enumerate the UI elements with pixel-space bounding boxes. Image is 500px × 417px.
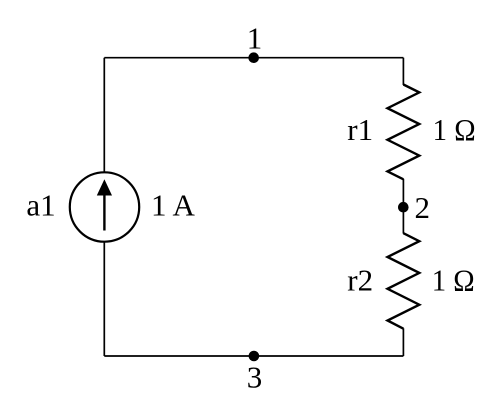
wire top (node1 horizontal) [104, 57, 403, 59]
svg-text:1: 1 [247, 21, 263, 56]
node 2 junction dot [398, 202, 409, 213]
node 1 junction dot [248, 52, 259, 63]
current source arrow shaft [103, 193, 105, 231]
wire right middle (r1 to r2 through node 2) [402, 179, 404, 234]
resistor R2 zigzag [388, 233, 420, 329]
current source arrow head [97, 179, 112, 195]
svg-text:2: 2 [415, 190, 431, 225]
wire left upper [103, 58, 105, 173]
wire left lower [103, 242, 105, 357]
svg-text:1 A: 1 A [151, 187, 196, 222]
current source a1 circle [70, 172, 139, 241]
resistor R1 zigzag [388, 85, 420, 180]
svg-text:3: 3 [247, 360, 263, 395]
svg-text:a1: a1 [26, 187, 55, 222]
wire bottom (node3 horizontal) [104, 355, 403, 357]
wire right bottom (r2 to bottom wire) [402, 328, 404, 356]
wire right top (into r1) [402, 58, 404, 85]
svg-text:r2: r2 [347, 263, 373, 298]
svg-text:1 Ω: 1 Ω [432, 263, 475, 298]
svg-text:r1: r1 [347, 112, 373, 147]
node 3 junction dot [249, 351, 260, 362]
svg-text:1 Ω: 1 Ω [433, 112, 476, 147]
